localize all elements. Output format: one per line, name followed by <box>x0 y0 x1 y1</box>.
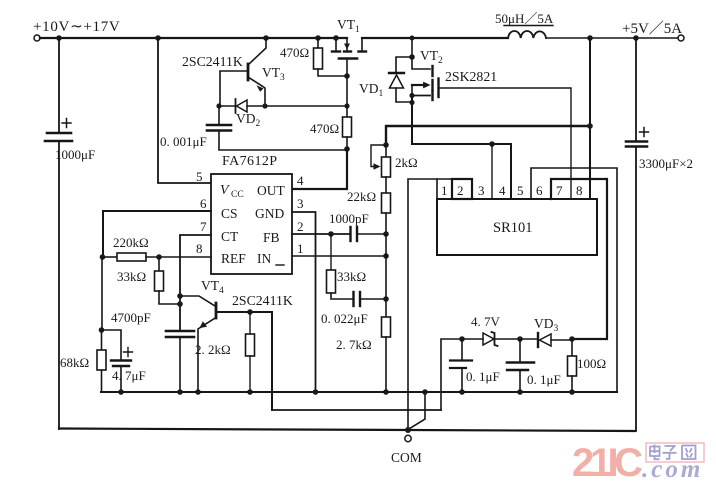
wire pin8 column from rail to SR101 pin8 <box>589 38 591 199</box>
wire VT4 collector down to zener line <box>271 312 273 410</box>
transistor VT1 P-MOSFET <box>335 38 337 51</box>
node junction at pin3 wire <box>489 141 495 147</box>
svg-text:FB: FB <box>263 230 280 245</box>
node junction on rail at 1000uF <box>56 35 62 41</box>
node junction on rail at 470ohm upper <box>315 35 321 41</box>
node junction 33k join <box>177 301 183 307</box>
node junction bus 0.1uF first <box>459 389 465 395</box>
svg-text:+5V／5A: +5V／5A <box>622 20 682 37</box>
node junction OUT drive <box>344 146 350 152</box>
svg-text:3300μF×2: 3300μF×2 <box>639 156 693 171</box>
svg-text:1000pF: 1000pF <box>329 211 369 226</box>
svg-text:CT: CT <box>221 229 239 244</box>
wire down to SR101 pin4 <box>510 144 512 199</box>
node junction 0.1uF first <box>459 336 465 342</box>
wire 1000uF negative down to bottom bus <box>58 141 60 429</box>
svg-text:2. 2kΩ: 2. 2kΩ <box>195 342 231 357</box>
wire top rail left segment <box>40 37 347 39</box>
svg-text:21IC: 21IC <box>572 441 642 485</box>
capacitor C8 3300uF x2 output <box>635 38 637 141</box>
svg-text:2: 2 <box>297 219 304 234</box>
svg-text:GND: GND <box>255 206 284 221</box>
wire bottom common bus <box>59 429 635 432</box>
transistor VT4 2SC2411K <box>180 296 215 306</box>
svg-text:2: 2 <box>457 183 464 198</box>
svg-text:2SC2411K: 2SC2411K <box>182 54 243 69</box>
node junction +5V line meets pin8 column <box>587 123 593 129</box>
svg-text:100Ω: 100Ω <box>577 356 606 371</box>
node junction rail to 3300uF <box>633 35 639 41</box>
wire VT2 gate to SR101 pin7 <box>439 88 572 199</box>
wire OUT pin4 to 470ohm lower <box>292 149 347 189</box>
node junction rail at VT2 branch <box>410 36 415 41</box>
node junction FB/33k <box>328 231 334 237</box>
wire signal ground bus <box>101 391 617 393</box>
node junction 2k top <box>383 142 389 148</box>
svg-text:2SK2821: 2SK2821 <box>445 69 497 84</box>
svg-text:VT4: VT4 <box>201 278 224 296</box>
IC U1 FA7612P body <box>211 174 292 274</box>
svg-text:68kΩ: 68kΩ <box>60 355 89 370</box>
capacitor 1000pF <box>349 227 351 241</box>
capacitor 4.7uF <box>102 330 122 360</box>
pins 7-8 box wire to VD3 node <box>551 179 607 339</box>
zener diode 4.7V <box>441 339 483 410</box>
node junction bus COM stub <box>422 389 428 395</box>
svg-text:5: 5 <box>517 183 524 198</box>
node junction VT3 emitter / VD2 anode <box>262 103 267 108</box>
resistor R1 470ohm upper <box>317 38 319 48</box>
svg-text:VT2: VT2 <box>420 48 443 66</box>
wire down to SR101 pin3 <box>491 144 493 199</box>
resistor 2.7k ohm <box>382 317 391 337</box>
svg-text:5: 5 <box>196 169 203 184</box>
svg-text:1: 1 <box>441 183 448 198</box>
wire +5V thick line to 2k top and pin8 column <box>386 126 590 145</box>
svg-text:COM: COM <box>391 450 422 465</box>
resistor 2.2k ohm <box>247 309 253 315</box>
svg-text:33kΩ: 33kΩ <box>337 269 366 284</box>
svg-text:4: 4 <box>297 173 304 188</box>
svg-text:8: 8 <box>196 241 203 256</box>
potentiometer 2k ohm <box>371 145 386 167</box>
svg-text:2SC2411K: 2SC2411K <box>232 293 293 308</box>
wire CS pin6 to 220k junction <box>103 211 211 257</box>
capacitor C1 1000uF input <box>58 38 60 132</box>
svg-text:V: V <box>220 183 230 198</box>
svg-text:6: 6 <box>536 183 543 198</box>
svg-text:CS: CS <box>221 206 238 221</box>
svg-text:4. 7V: 4. 7V <box>471 314 501 329</box>
svg-text:4700pF: 4700pF <box>111 310 151 325</box>
resistor 22k ohm <box>385 177 387 193</box>
wire Vcc feed from rail to pin5 <box>158 38 211 183</box>
capacitor 0.1uF second <box>519 340 521 362</box>
diode VD2 <box>216 103 221 108</box>
resistor 33k ohm right <box>330 234 332 270</box>
output terminal +5V/5A <box>678 35 684 41</box>
svg-text:FA7612P: FA7612P <box>222 154 277 169</box>
diode VD3 <box>537 333 539 347</box>
svg-text:2kΩ: 2kΩ <box>395 155 418 170</box>
svg-text:4: 4 <box>499 183 506 198</box>
svg-text:4. 7μF: 4. 7μF <box>112 368 146 383</box>
wire SR101 pin1 to COM column <box>408 179 437 430</box>
inductor L1 50uH/5A <box>508 31 546 38</box>
wire VT2 source down and to SR101 pins 3,4 <box>412 96 511 145</box>
svg-text:0. 001μF: 0. 001μF <box>160 134 207 149</box>
wire VT4 collector line to zener <box>272 409 441 411</box>
node junction VT4 base <box>177 293 183 299</box>
wire VD2 node to VT1 gate column <box>265 105 347 107</box>
node junction rail to SR101 pin8 <box>587 35 593 41</box>
svg-text:REF: REF <box>221 251 246 266</box>
svg-text:VD1: VD1 <box>359 81 384 99</box>
node junction bus GND FA7612P <box>313 389 319 395</box>
wire GND pin3 down to signal bus <box>292 212 316 392</box>
node junction VT2 source/substrate <box>409 93 414 98</box>
node junction bus 2.7k <box>383 389 389 395</box>
svg-text:0. 022μF: 0. 022μF <box>321 311 368 326</box>
node junction on rail at VT1 source <box>333 35 339 41</box>
wire COM stub and diagonal <box>408 392 425 430</box>
svg-text:VD2: VD2 <box>236 111 261 129</box>
node junction VD3 cathode / 100 ohm <box>569 336 575 342</box>
svg-text:220kΩ: 220kΩ <box>113 235 149 250</box>
node junction bus 4.7uF <box>118 389 124 395</box>
capacitor 0.1uF first <box>461 339 463 360</box>
node junction on rail at VT3 collector <box>263 35 269 41</box>
node junction IN- <box>383 253 389 259</box>
node junction COM <box>405 427 411 433</box>
glyph dian <box>650 445 660 460</box>
resistor 220k ohm <box>103 256 117 258</box>
svg-text:0. 1μF: 0. 1μF <box>527 372 561 387</box>
node junction on rail at Vcc feed <box>155 35 161 41</box>
svg-text:470Ω: 470Ω <box>280 45 309 60</box>
svg-text:3: 3 <box>478 183 485 198</box>
wire rail branch down to VT2 drain <box>411 38 413 57</box>
resistor 68k ohm <box>101 257 103 330</box>
svg-text:8: 8 <box>576 183 583 198</box>
node junction VD2 wire joins gate column <box>344 103 349 108</box>
svg-text:VD3: VD3 <box>534 316 559 334</box>
node junction VT1 gate <box>344 73 350 79</box>
svg-text:SR101: SR101 <box>493 220 533 236</box>
node junction bus 0.1uF second <box>517 389 523 395</box>
svg-text:7: 7 <box>556 183 563 198</box>
svg-text:VT3: VT3 <box>262 65 285 83</box>
svg-text:1: 1 <box>297 241 304 256</box>
capacitor 4700pF <box>166 330 194 333</box>
svg-text:IN: IN <box>257 251 271 266</box>
svg-text:6: 6 <box>200 196 207 211</box>
svg-text:.com: .com <box>642 456 703 483</box>
svg-text:22kΩ: 22kΩ <box>347 189 376 204</box>
svg-text:OUT: OUT <box>257 183 285 198</box>
terminal COM <box>405 435 411 441</box>
svg-text:50μH／5A: 50μH／5A <box>495 11 554 26</box>
transistor VT3 2SC2411K <box>249 38 266 64</box>
node junction VD1 anode to source <box>409 100 414 105</box>
wire top rail right segment from VT1 drain to inductor <box>362 37 508 39</box>
wire SR101 pin5/6 to signal bus <box>531 168 617 392</box>
svg-text:CC: CC <box>231 190 244 200</box>
input terminal +10V~+17V <box>34 35 40 41</box>
pin 2 box SR101 <box>452 179 472 199</box>
svg-text:7: 7 <box>200 219 207 234</box>
wire IN- pin1 <box>292 255 386 257</box>
node junction VT2 drain <box>409 54 415 60</box>
IC U2 SR101 body <box>437 199 597 255</box>
node junction REF/33k <box>156 254 162 260</box>
wire IN- column <box>385 234 387 317</box>
svg-text:3: 3 <box>297 196 304 211</box>
resistor R2 470ohm lower <box>346 76 348 117</box>
svg-text:470Ω: 470Ω <box>310 121 339 136</box>
wire CT pin7 down to timing node <box>180 235 211 330</box>
resistor 33k ohm left <box>158 257 160 271</box>
svg-text:1000μF: 1000μF <box>55 147 95 162</box>
node junction bus 100 ohm <box>569 389 575 395</box>
capacitor 0.022uF <box>352 292 354 306</box>
node junction bus 4700pF <box>177 389 183 395</box>
node junction 0.022uF to IN- column <box>383 296 389 302</box>
node junction IN- column top <box>383 231 389 237</box>
svg-text:33kΩ: 33kΩ <box>117 269 146 284</box>
glyph wang <box>682 446 696 460</box>
svg-text:VT1: VT1 <box>337 17 360 35</box>
capacitor C2 0.001uF <box>218 106 220 124</box>
transistor VT2 N-MOSFET 2SK2821 <box>412 57 430 69</box>
node junction CS/220k <box>100 254 106 260</box>
svg-text:+10V∼+17V: +10V∼+17V <box>33 19 120 35</box>
node junction bus VT4 emitter <box>195 389 201 395</box>
wire top rail after inductor <box>546 37 678 39</box>
wire FB pin2 <box>292 233 350 235</box>
diode VD1 <box>396 57 412 72</box>
svg-text:0. 1μF: 0. 1μF <box>466 369 500 384</box>
glyph zi <box>663 446 677 459</box>
resistor 100 ohm <box>571 339 573 356</box>
svg-text:2. 7kΩ: 2. 7kΩ <box>336 337 372 352</box>
pin 1 box SR101 <box>437 179 452 199</box>
node junction bus 2.2k <box>247 389 253 395</box>
watermark logo 21IC <box>572 441 704 485</box>
node junction zener cathode / 0.1uF second <box>517 336 523 342</box>
